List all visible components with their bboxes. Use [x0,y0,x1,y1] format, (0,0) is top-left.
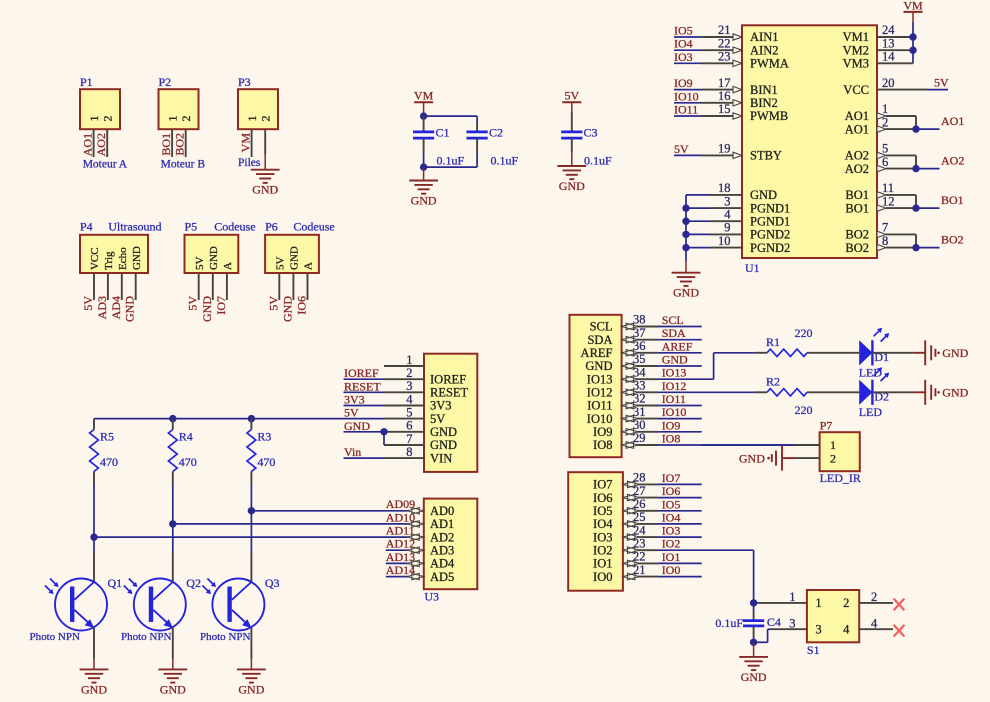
svg-text:7: 7 [406,432,412,446]
svg-text:GND: GND [238,682,264,696]
svg-text:2: 2 [406,366,412,380]
svg-text:PWMA: PWMA [750,57,789,71]
wire junction to ground [423,167,425,180]
svg-text:1: 1 [789,590,795,604]
resistor R3 [247,419,256,484]
svg-text:6: 6 [882,155,888,169]
wire VM supply to VM pins [877,12,913,63]
wire net IO5 to U1 AIN1 [674,34,742,40]
svg-text:31: 31 [633,405,646,419]
IO7-IO0 block pin numbers [633,471,646,577]
svg-text:Vin: Vin [344,445,361,459]
svg-text:C2: C2 [489,126,503,140]
svg-text:33: 33 [633,379,646,393]
wire D2 cathode to ground [872,391,912,393]
svg-text:5V: 5V [674,142,689,156]
svg-text:VM: VM [903,0,923,12]
svg-text:4: 4 [724,207,731,221]
svg-text:27: 27 [633,484,646,498]
IC U1 body [742,25,877,258]
svg-text:1: 1 [87,116,101,122]
svg-text:BO2: BO2 [941,233,964,247]
U1 left pin numbers [718,23,731,248]
svg-text:20: 20 [882,76,895,90]
AD2 input arrow [407,534,424,541]
ground GND at Q3 [237,669,266,696]
svg-text:1: 1 [815,596,821,610]
svg-text:P3: P3 [238,75,251,89]
svg-text:21: 21 [718,23,731,37]
wire Q2 emitter to ground [172,628,174,670]
wire net 5V to U1 STBY [674,152,742,158]
svg-text:P6: P6 [265,220,278,234]
U3 power block pin names [430,372,469,465]
svg-text:26: 26 [633,497,646,511]
svg-text:23: 23 [633,536,646,550]
svg-text:IOREF: IOREF [430,372,466,386]
P3 pin wires [252,129,266,157]
wire IO8 to P7 pin 1 [702,444,820,446]
wire 5V rail to Arduino 5V pin [94,418,384,420]
svg-text:IO6: IO6 [295,296,309,315]
svg-text:IO6: IO6 [662,484,681,498]
svg-text:PGND2: PGND2 [750,241,790,255]
svg-text:470: 470 [179,455,197,469]
wire net IO8 [622,442,795,449]
svg-text:2: 2 [258,116,272,122]
wire net IO10 [622,415,702,422]
svg-text:GND: GND [280,296,294,322]
svg-text:AD4: AD4 [430,557,455,571]
LED D2 [859,367,889,405]
power 5V at C3 [562,89,581,103]
svg-text:VM3: VM3 [843,57,869,71]
svg-text:24: 24 [882,23,895,37]
svg-text:28: 28 [633,471,646,485]
svg-text:AD5: AD5 [430,570,454,584]
svg-text:C3: C3 [584,126,598,140]
capacitor C2 [467,123,488,153]
svg-text:35: 35 [633,352,646,366]
svg-text:GND: GND [81,682,107,696]
svg-text:PGND1: PGND1 [750,214,790,228]
svg-text:GND: GND [942,346,968,360]
svg-text:P1: P1 [80,75,93,89]
connector P4 Ultrasound [80,220,148,273]
svg-text:11: 11 [882,181,894,195]
svg-text:R2: R2 [766,375,780,389]
header digital block IO7-IO0 body [568,472,623,591]
svg-text:BIN1: BIN1 [750,83,778,97]
svg-text:4: 4 [406,392,413,406]
svg-text:9: 9 [724,221,730,235]
svg-text:BO1: BO1 [941,193,964,207]
svg-text:17: 17 [718,76,731,90]
svg-text:Photo NPN: Photo NPN [30,631,80,643]
wire net AD10 to AD1 [410,523,424,525]
ground GND at Q2 [158,669,187,696]
wire net SCL [622,323,702,330]
svg-text:6: 6 [406,419,412,433]
junction R3 column [248,507,255,514]
power VM at C1 [414,89,434,103]
junction at C1 top [420,112,427,119]
power VM at U1 [903,0,923,12]
svg-text:IO9: IO9 [674,76,693,90]
wire net IO11 [622,402,702,409]
wire C1 top to C2 top [424,116,478,123]
svg-text:3: 3 [815,622,821,636]
junction at AO1 [912,125,919,132]
switch S1 body [807,590,859,642]
wire net AD11 to AD2 [410,536,424,538]
svg-text:32: 32 [633,392,646,406]
wire R3 to transistor [250,484,252,582]
svg-text:2: 2 [871,590,877,604]
resistor R5 [90,419,99,484]
svg-text:IOREF: IOREF [344,366,379,380]
capacitor C3 [561,132,582,152]
svg-text:LED: LED [859,405,883,419]
AD3 input arrow [407,547,424,554]
svg-text:AO1: AO1 [845,109,869,123]
svg-text:14: 14 [882,50,895,64]
svg-text:13: 13 [882,36,895,50]
svg-text:34: 34 [633,365,646,379]
ground GND at Q1 [80,669,109,696]
wire R5 to AD2 [94,536,410,538]
svg-text:Codeuse: Codeuse [293,220,334,234]
svg-text:LED: LED [859,366,883,380]
wire net IO7 [623,481,702,488]
svg-text:A: A [222,262,234,270]
junction at AO2 [912,165,919,172]
junction R4 column [169,520,176,527]
svg-text:GND: GND [200,296,214,322]
U3 pin 1 stub [384,365,424,367]
svg-text:19: 19 [718,142,731,156]
svg-text:GND: GND [750,188,777,202]
resistor R4 [168,419,177,484]
svg-text:IO5: IO5 [662,497,681,511]
wire IO13 riser to R1 [714,353,755,379]
svg-text:GND: GND [741,670,767,684]
AD0 input arrow [407,507,424,514]
wire net 3V3 [344,405,425,407]
wire net Vin [344,457,425,459]
svg-text:VM: VM [239,133,253,153]
digital block pin names [581,320,613,453]
svg-text:2: 2 [100,116,114,122]
svg-text:AO1: AO1 [81,133,95,156]
P4 pin wires [94,273,136,300]
svg-text:IO7: IO7 [593,478,612,492]
svg-text:470: 470 [100,455,118,469]
svg-text:AD1: AD1 [430,517,454,531]
connector P1 [80,75,120,129]
svg-text:38: 38 [633,313,646,327]
ground GND at P3 [251,170,280,197]
wire net IO4 [623,520,702,527]
svg-text:VCC: VCC [89,247,101,270]
svg-text:PWMB: PWMB [750,109,788,123]
svg-text:SCL: SCL [662,313,684,327]
svg-text:1: 1 [882,102,888,116]
wire U1 BO2 output pair [877,231,940,251]
svg-text:22: 22 [718,36,731,50]
svg-text:IO4: IO4 [674,37,693,51]
wire net IO11 to U1 PWMB [674,113,742,119]
wire net IO12 [622,389,755,396]
transistor Q2 Photo NPN [124,579,186,631]
svg-text:GND: GND [673,286,699,300]
svg-text:AIN1: AIN1 [750,30,778,44]
svg-text:P2: P2 [159,75,172,89]
wire D1 cathode to ground [872,352,912,354]
svg-text:AO1: AO1 [941,114,964,128]
wire U1 BO1 output pair [877,192,940,212]
resistor R2 [755,389,860,396]
svg-text:SDA: SDA [662,326,686,340]
junction at BO2 [912,244,919,251]
svg-text:5V: 5V [186,296,200,311]
svg-text:VIN: VIN [430,451,452,465]
svg-text:U3: U3 [424,590,439,604]
wire C1 bottom to C2 bottom [424,153,478,167]
AD1 input arrow [407,520,424,527]
svg-text:GND: GND [942,386,968,400]
svg-text:AO2: AO2 [941,154,964,168]
svg-text:7: 7 [882,221,888,235]
svg-text:SCL: SCL [590,320,613,334]
wire net AD12 to AD3 [386,549,424,551]
svg-text:AO2: AO2 [845,162,869,176]
wire net IO13 [622,376,714,383]
svg-text:Photo NPN: Photo NPN [200,631,250,643]
svg-text:IO2: IO2 [593,543,612,557]
S1 pin 2 wire [859,602,893,604]
svg-text:GND: GND [131,246,143,270]
S1 pin 4 wire [859,628,893,630]
connector P2 [159,75,199,129]
svg-text:3V3: 3V3 [344,393,365,407]
ground GND at U1 [672,273,701,300]
svg-text:AD0: AD0 [430,504,454,518]
svg-text:GND: GND [430,438,457,452]
U3 analog pin names [430,504,455,584]
svg-text:470: 470 [257,455,275,469]
capacitor C4 [743,603,764,642]
wire net AD14 to AD5 [386,576,424,578]
svg-text:IO2: IO2 [662,537,681,551]
junction rail at R4 [169,415,176,422]
transistor Q3 Photo NPN [202,579,264,631]
svg-text:R1: R1 [766,335,780,349]
svg-text:AD3: AD3 [430,543,454,557]
svg-text:IO6: IO6 [593,491,612,505]
svg-text:RESET: RESET [344,379,381,393]
svg-text:P7: P7 [820,419,833,433]
wire net SDA [622,336,702,343]
svg-text:BO1: BO1 [845,201,869,215]
svg-text:IO13: IO13 [587,372,613,386]
svg-text:1: 1 [165,116,179,122]
junctions on ground bus [682,204,689,251]
svg-text:0.1uF: 0.1uF [437,153,465,167]
P6 pin wires [279,273,307,300]
svg-text:Moteur A: Moteur A [83,158,128,170]
svg-text:2: 2 [179,116,193,122]
svg-text:IO9: IO9 [593,425,612,439]
wire net IO3 [623,534,702,541]
svg-text:BO2: BO2 [845,228,869,242]
ground flag GND at P7 [739,446,795,471]
svg-text:22: 22 [633,550,646,564]
wire net RESET [344,391,425,393]
svg-text:220: 220 [795,326,813,340]
svg-text:16: 16 [718,89,731,103]
svg-text:IO5: IO5 [674,24,693,38]
svg-text:VM1: VM1 [843,30,869,44]
svg-text:GND: GND [208,246,220,270]
svg-text:Ultrasound: Ultrasound [108,220,161,234]
svg-text:BO1: BO1 [845,188,869,202]
svg-text:8: 8 [406,445,412,459]
svg-text:IO3: IO3 [593,530,612,544]
svg-text:BO1: BO1 [159,133,173,156]
svg-text:IO0: IO0 [593,570,612,584]
ground GND at C1 [409,181,438,208]
svg-text:IO8: IO8 [662,432,681,446]
svg-text:GND: GND [160,682,186,696]
svg-text:IO7: IO7 [662,471,681,485]
wire net IOREF [344,378,425,380]
svg-text:5: 5 [406,405,412,419]
svg-text:2: 2 [830,451,836,465]
svg-text:3: 3 [406,379,412,393]
svg-text:AO2: AO2 [845,149,869,163]
svg-text:IO5: IO5 [593,504,612,518]
svg-text:BO2: BO2 [173,133,187,156]
ground GND at S1 [739,657,768,684]
svg-text:30: 30 [633,418,646,432]
connector P5 Codeuse [185,220,239,273]
header U3 analog block body [424,499,478,590]
AD4 input arrow [407,560,424,567]
svg-text:12: 12 [882,194,895,208]
connector P3 [238,75,278,129]
svg-text:IO4: IO4 [593,517,613,531]
digital block pin numbers [633,313,646,446]
svg-text:IO12: IO12 [662,379,687,393]
junction at C1 bottom [420,163,427,170]
wire net AREF [622,349,702,356]
svg-text:IO11: IO11 [674,103,698,117]
svg-text:AREF: AREF [581,346,613,360]
svg-text:IO4: IO4 [662,510,681,524]
svg-text:2: 2 [843,596,849,610]
svg-text:18: 18 [718,181,731,195]
svg-text:GND: GND [585,359,612,373]
svg-text:VM2: VM2 [843,43,869,57]
junctions at VM pins [909,33,916,54]
svg-text:0.1uF: 0.1uF [584,153,612,167]
svg-text:5V: 5V [934,76,949,90]
svg-text:0.1uF: 0.1uF [491,153,519,167]
svg-text:AD4: AD4 [109,296,123,319]
svg-text:IO10: IO10 [587,412,613,426]
svg-text:IO8: IO8 [593,438,612,452]
wire U1 ground bus [686,195,742,261]
svg-text:3: 3 [724,194,730,208]
wire net IO10 to U1 BIN2 [674,100,742,106]
svg-text:P4: P4 [80,220,93,234]
svg-text:A: A [303,262,315,270]
svg-text:Q3: Q3 [265,576,280,590]
wire net IO4 to U1 AIN2 [674,47,742,53]
svg-text:IO13: IO13 [662,366,687,380]
svg-text:AIN2: AIN2 [750,43,778,57]
wire R5 to transistor [93,484,95,582]
transistor Q1 Photo NPN [45,579,107,631]
wire net GND to pins 6 and 7 [344,432,425,445]
ground flag GND at D1 [913,340,969,365]
svg-text:GND: GND [344,419,370,433]
P1 pin wires [94,129,108,157]
AD5 input arrow [407,573,424,580]
junction at S1 pin 1 branch [750,599,757,606]
svg-text:AREF: AREF [662,339,693,353]
svg-text:C1: C1 [436,126,450,140]
capacitor C1 [413,116,434,153]
svg-text:1: 1 [830,438,836,452]
svg-text:220: 220 [795,403,813,417]
svg-text:R5: R5 [100,430,114,444]
resistor R1 [755,349,860,356]
svg-text:36: 36 [633,339,646,353]
svg-text:IO10: IO10 [662,405,687,419]
svg-text:P5: P5 [185,220,198,234]
svg-text:VM: VM [414,89,434,103]
wire net IO5 [623,507,702,514]
wire VM to junction [423,102,425,116]
svg-text:IO0: IO0 [662,563,681,577]
junction R5 column [90,533,97,540]
wire net IO1 [623,560,702,567]
svg-text:3: 3 [789,616,795,630]
junction at BO1 [912,204,919,211]
svg-text:AO1: AO1 [845,122,869,136]
junction at C4 bottom [750,639,757,646]
svg-text:IO1: IO1 [593,557,612,571]
IO7-IO0 block pin names [593,478,613,584]
U1 right pin names [843,30,869,255]
header U3 power block body [424,354,477,472]
svg-text:BIN2: BIN2 [750,96,778,110]
svg-text:0.1uF: 0.1uF [715,616,743,630]
svg-text:IO3: IO3 [662,524,681,538]
svg-text:IO3: IO3 [674,50,693,64]
svg-text:29: 29 [633,431,646,445]
wire to ground [264,154,266,170]
wire 5V to C3 [571,102,573,131]
svg-text:IO12: IO12 [587,386,613,400]
svg-text:1: 1 [406,353,412,367]
svg-text:Q1: Q1 [108,576,123,590]
svg-text:24: 24 [633,523,646,537]
wire rail into 5V pin [384,418,424,420]
wire junction to ground at S1 [753,642,755,657]
